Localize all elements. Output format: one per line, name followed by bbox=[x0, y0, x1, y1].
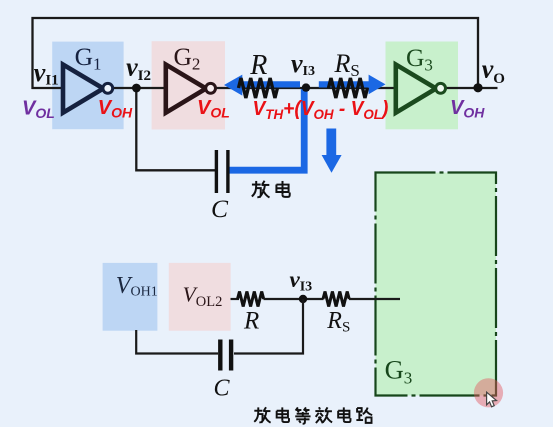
bottom: VOL2 highlight box bbox=[169, 263, 231, 331]
resistor RS (top) bbox=[329, 78, 368, 98]
wire: vI2 down to capacitor C bbox=[136, 88, 215, 170]
bottom wire: VOL2 to R bbox=[231, 298, 240, 300]
wire: feedback top loop from vO to vI1 bbox=[33, 18, 479, 89]
blue discharge path: C right plate to vI3 bbox=[229, 89, 304, 170]
blue discharge current arrow (left through R) bbox=[224, 75, 300, 96]
label 放电 (discharge) bbox=[252, 181, 290, 198]
wire: vI1 input segment bbox=[32, 87, 65, 89]
wire: G1 output to G2 input bbox=[113, 87, 168, 89]
bottom wire: RS into G3 box bbox=[349, 298, 400, 300]
bottom resistor R bbox=[238, 292, 264, 307]
gate G1 highlight box bbox=[52, 42, 123, 130]
svg-text:C: C bbox=[211, 194, 229, 223]
bottom resistor RS bbox=[323, 292, 349, 307]
resistor R (top) bbox=[239, 78, 278, 98]
bottom wire: capacitor to VOH1 bbox=[136, 330, 218, 354]
gate G3 highlight box bbox=[386, 42, 459, 130]
mouse cursor bbox=[487, 392, 497, 407]
wire: G2 output through R, vI3, RS to G3 input bbox=[215, 87, 396, 89]
blue down arrow (discharge direction) bbox=[322, 129, 342, 173]
svg-text:C: C bbox=[214, 376, 231, 402]
node vI3 bbox=[302, 83, 310, 91]
svg-text:R: R bbox=[249, 50, 267, 81]
bottom: VOH1 highlight box bbox=[103, 263, 158, 331]
bottom: G3 dashed green box bbox=[376, 173, 497, 396]
label VTH+(VOH-VOL) red bbox=[253, 98, 389, 122]
bottom wire: R to RS bbox=[264, 298, 324, 300]
node vI2 bbox=[132, 84, 141, 93]
inverter U G2 bbox=[166, 65, 216, 113]
wire: G3 output to vO stub bbox=[445, 87, 498, 89]
capacitor C (top) plates bbox=[215, 150, 218, 193]
bottom node vI3 bbox=[299, 295, 307, 303]
gate G2 highlight box bbox=[152, 41, 225, 129]
cursor highlight circle bbox=[474, 378, 503, 407]
svg-text:R: R bbox=[243, 308, 259, 335]
bottom wire: vI3 down to capacitor bbox=[234, 299, 303, 354]
blue discharge current arrow (right through RS) bbox=[319, 75, 386, 95]
inverter U G3 bbox=[396, 65, 446, 113]
inverter U G1 bbox=[63, 65, 113, 113]
node vO bbox=[473, 83, 482, 92]
bottom capacitor C plates bbox=[218, 340, 222, 371]
label 放电等效电路 (discharge equivalent circuit) bbox=[254, 407, 372, 424]
